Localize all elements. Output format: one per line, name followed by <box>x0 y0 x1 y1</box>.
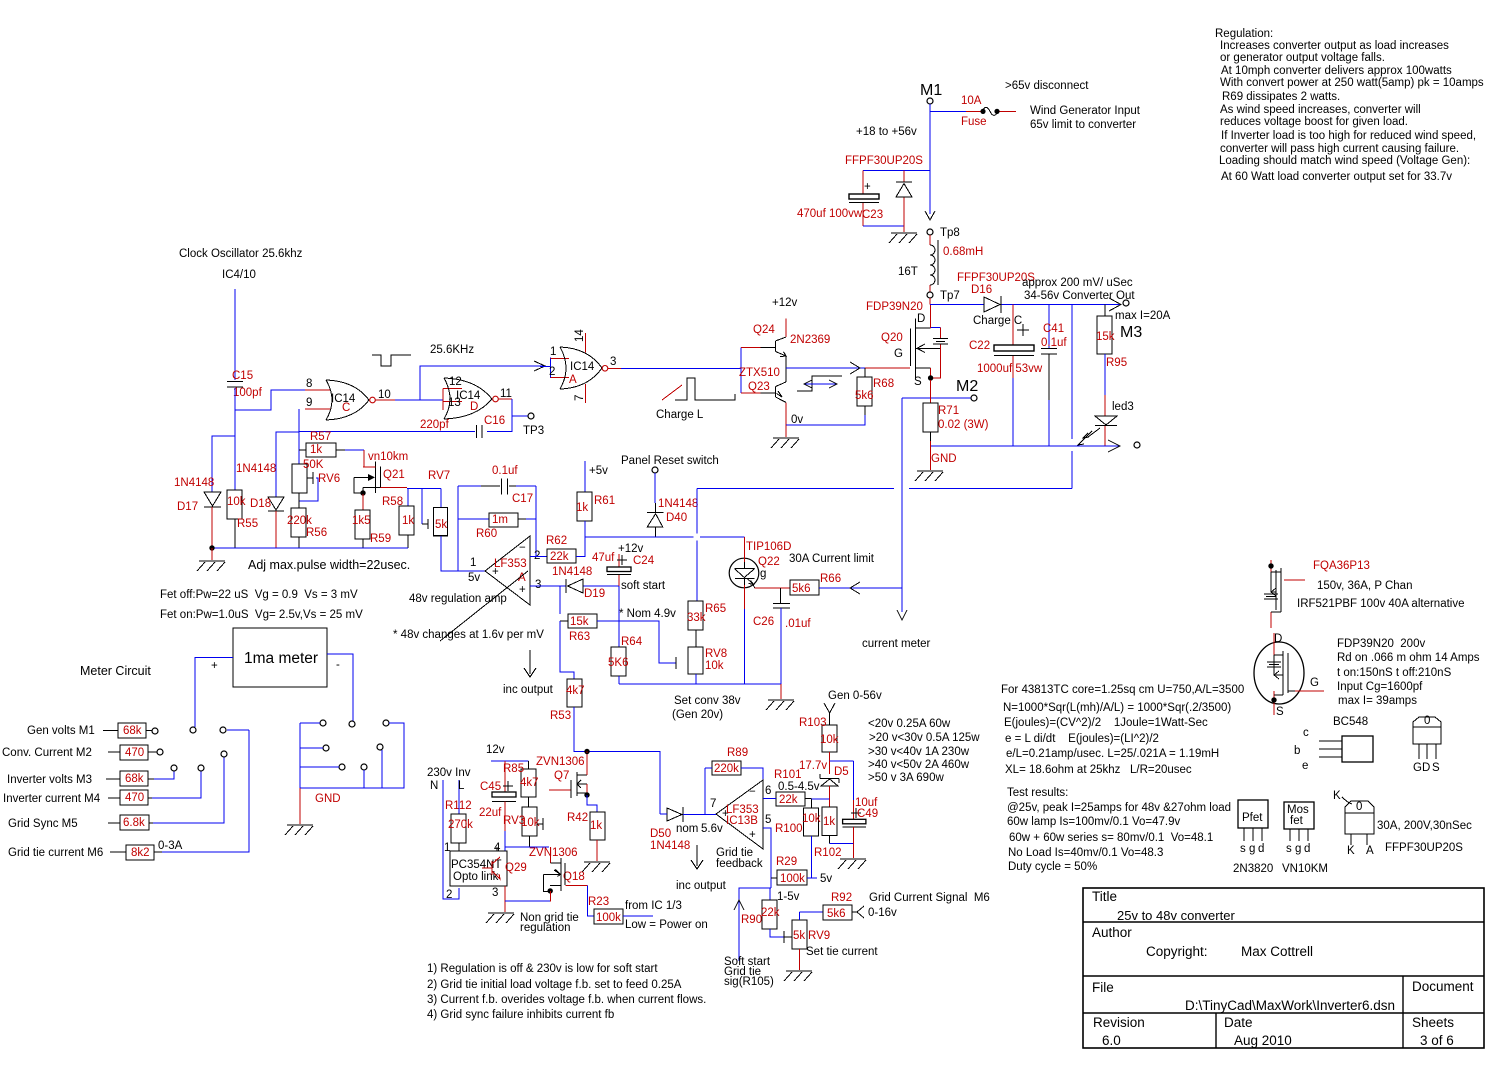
svg-text:d: d <box>1258 843 1264 855</box>
resistor R65 <box>687 601 726 647</box>
svg-text:R95: R95 <box>1106 357 1127 369</box>
svg-text:fet: fet <box>1290 815 1304 827</box>
svg-text:R42: R42 <box>567 812 588 824</box>
transistor Q22 TIP106D <box>729 537 791 684</box>
svg-text:R69 dissipates 2 watts.: R69 dissipates 2 watts. <box>1222 91 1340 103</box>
svg-text:0.02 (3W): 0.02 (3W) <box>938 419 989 431</box>
svg-text:* Nom 4.9v: * Nom 4.9v <box>619 608 676 620</box>
fuse 10A <box>930 95 1016 128</box>
svg-text:G: G <box>1310 677 1319 689</box>
switch selector right block <box>300 720 404 788</box>
svg-text:R23: R23 <box>588 896 609 908</box>
svg-text:R101: R101 <box>774 769 802 781</box>
resistor R103 <box>799 717 839 761</box>
resistor 6.8k M5 <box>8 751 227 830</box>
svg-text:Low = Power on: Low = Power on <box>625 919 708 931</box>
svg-text:3: 3 <box>492 887 498 899</box>
svg-text:5k: 5k <box>793 930 805 942</box>
note regulation text block <box>1215 28 1484 183</box>
svg-text:6.0: 6.0 <box>1102 1033 1121 1048</box>
svg-text:regulation: regulation <box>520 922 571 934</box>
svg-text:60w + 60w series s= 80mv/0.1: 60w + 60w series s= 80mv/0.1 Vo=48.1 <box>1009 832 1213 844</box>
transistor Q21 vn10km <box>354 462 407 511</box>
svg-text:10k: 10k <box>802 813 821 825</box>
svg-text:e/L=0.21amp/usec. L=25/.021A =: e/L=0.21amp/usec. L=25/.021A = 1.19mH <box>1006 748 1219 760</box>
svg-text:from IC 1/3: from IC 1/3 <box>625 900 682 912</box>
svg-text:R65: R65 <box>705 603 726 615</box>
svg-text:5k6: 5k6 <box>827 908 846 920</box>
node M1 terminal <box>920 82 942 104</box>
svg-text:FQA36P13: FQA36P13 <box>1313 560 1370 572</box>
package Mosfet VN10KM <box>1282 802 1328 875</box>
svg-text:Panel Reset switch: Panel Reset switch <box>621 455 719 467</box>
resistor R60 1m <box>458 513 536 540</box>
resistor R68 <box>855 368 894 415</box>
svg-text:11: 11 <box>500 388 512 400</box>
svg-text:R100: R100 <box>775 823 803 835</box>
note core formulas block <box>1001 684 1244 776</box>
capacitor C15 <box>227 370 263 399</box>
resistor R42 <box>567 795 610 872</box>
svg-text:−: − <box>519 542 526 554</box>
potentiometer RV3 <box>503 807 543 847</box>
svg-text:G: G <box>894 348 903 360</box>
potentiometer RV6 50K <box>292 459 340 501</box>
svg-text:100pf: 100pf <box>233 387 263 399</box>
wire RV7 bottom to op-amp input <box>441 536 485 571</box>
svg-text:C16: C16 <box>484 415 505 427</box>
node TP3 <box>523 413 544 437</box>
svg-text:Q24: Q24 <box>753 324 775 336</box>
wire emitter junction to gate drive <box>786 362 910 374</box>
svg-text:feedback: feedback <box>716 858 763 870</box>
package FFPF30UP20S <box>1333 790 1472 857</box>
svg-text:b: b <box>1294 745 1300 757</box>
capacitor C22 1000uf <box>969 305 1043 447</box>
svg-text:34-56v Converter Out: 34-56v Converter Out <box>1024 290 1135 302</box>
svg-text:9: 9 <box>306 397 312 409</box>
wire pin11 to C16/TP3 <box>299 399 528 432</box>
svg-text:Regulation:: Regulation: <box>1215 28 1273 40</box>
svg-text:Revision: Revision <box>1093 1015 1145 1030</box>
svg-text:D5: D5 <box>834 766 849 778</box>
junction bus ground <box>209 545 214 550</box>
svg-text:R103: R103 <box>799 717 827 729</box>
svg-text:FDP39N20: FDP39N20 <box>866 301 923 313</box>
diode D19 <box>552 566 666 600</box>
svg-text:Wind Generator Input: Wind Generator Input <box>1030 105 1141 117</box>
svg-text:1000uf 53vw: 1000uf 53vw <box>977 363 1043 375</box>
svg-text:RV7: RV7 <box>428 470 450 482</box>
svg-text:8: 8 <box>306 378 312 390</box>
resistor R64 <box>608 636 643 684</box>
svg-text:max I= 39amps: max I= 39amps <box>1338 695 1417 707</box>
svg-text:IRF521PBF 100v 40A alternative: IRF521PBF 100v 40A alternative <box>1297 598 1465 610</box>
svg-text:16T: 16T <box>898 266 918 278</box>
ground Q23 <box>771 425 799 448</box>
svg-text:c: c <box>1303 727 1309 739</box>
resistor R62 <box>546 535 585 563</box>
package Pfet 2N3820 <box>1233 800 1273 875</box>
resistor 470 M2 <box>2 745 163 760</box>
ground C23 <box>889 226 917 243</box>
svg-text:220k: 220k <box>714 763 739 775</box>
svg-text:1: 1 <box>550 346 556 358</box>
svg-text:50K: 50K <box>303 459 324 471</box>
resistor 8k2 M6 <box>8 727 249 860</box>
optocoupler PC354NT <box>444 842 527 901</box>
svg-text:Q22: Q22 <box>758 556 780 568</box>
capacitor C16 <box>420 415 505 438</box>
transistor BC548 package <box>1294 716 1373 772</box>
resistor R55 <box>227 490 258 548</box>
svg-text:6.8k: 6.8k <box>123 817 145 829</box>
svg-text:100k: 100k <box>596 912 621 924</box>
svg-text:3) Current f.b. overides volta: 3) Current f.b. overides voltage f.b. wh… <box>427 994 706 1006</box>
note wind generator input <box>856 80 1141 138</box>
svg-text:Title: Title <box>1092 889 1117 904</box>
svg-text:1N4148: 1N4148 <box>236 463 276 475</box>
svg-text:R64: R64 <box>621 636 643 648</box>
resistor R56 <box>287 493 327 548</box>
svg-text:t on:150nS t off:210nS: t on:150nS t off:210nS <box>1337 667 1452 679</box>
svg-text:+: + <box>749 829 756 841</box>
svg-text:Q21: Q21 <box>383 469 405 481</box>
svg-text:R59: R59 <box>370 533 391 545</box>
svg-text:K: K <box>1333 790 1341 802</box>
svg-text:XL= 18.6ohm at 25khz L/R=20u: XL= 18.6ohm at 25khz L/R=20usec <box>1005 764 1192 776</box>
svg-text:R112: R112 <box>445 800 472 812</box>
svg-text:LF353: LF353 <box>494 558 527 570</box>
svg-text:Conv. Current M2: Conv. Current M2 <box>2 747 92 759</box>
svg-text:s: s <box>1286 843 1292 855</box>
resistor R92 <box>800 892 990 920</box>
transistor Q24 2N2369 <box>741 297 830 368</box>
wire Q23 emitter to 0v and R68 bottom <box>786 414 865 426</box>
svg-text:22k: 22k <box>550 551 569 563</box>
svg-text:File: File <box>1092 980 1114 995</box>
svg-text:N: N <box>430 780 438 792</box>
wire C24 to R64 <box>618 586 620 647</box>
svg-text:M1: M1 <box>920 82 942 99</box>
resistor R102 <box>814 799 842 859</box>
svg-text:1: 1 <box>470 557 476 569</box>
svg-text:5k: 5k <box>435 519 447 531</box>
wire zener node <box>799 760 853 800</box>
svg-text:Grid Sync M5: Grid Sync M5 <box>8 818 78 830</box>
svg-text:270k: 270k <box>448 819 473 831</box>
svg-text:R68: R68 <box>873 378 894 390</box>
svg-text:Q23: Q23 <box>748 381 770 393</box>
svg-text:7: 7 <box>710 798 716 810</box>
svg-text:g: g <box>1295 843 1301 855</box>
wire C15 to pin8 and to D17/R55 <box>212 388 305 492</box>
svg-text:R57: R57 <box>310 431 331 443</box>
wire pin9 net vertical <box>276 409 299 548</box>
svg-text:ZVN1306: ZVN1306 <box>536 756 585 768</box>
note numbered notes block <box>427 963 706 1021</box>
svg-text:220pf: 220pf <box>420 419 450 431</box>
svg-text:BC548: BC548 <box>1333 716 1368 728</box>
svg-text:10k: 10k <box>705 660 724 672</box>
wire IC14A output to ZTX bases <box>608 348 741 394</box>
svg-text:* 48v changes at 1.6v per mV: * 48v changes at 1.6v per mV <box>393 629 544 641</box>
svg-text:5.6v: 5.6v <box>701 823 723 835</box>
led led3 <box>1078 395 1134 446</box>
svg-text:D: D <box>1274 633 1282 645</box>
svg-text:vn10km: vn10km <box>368 451 408 463</box>
package TO-220 GDS <box>1413 715 1441 774</box>
svg-text:1k: 1k <box>402 515 414 527</box>
svg-text:R71: R71 <box>938 405 959 417</box>
svg-text:30A, 200V,30nSec: 30A, 200V,30nSec <box>1377 820 1472 832</box>
svg-text:5: 5 <box>765 814 771 826</box>
svg-text:15k: 15k <box>1096 331 1115 343</box>
svg-text:68k: 68k <box>125 773 144 785</box>
svg-text:(Gen 20v): (Gen 20v) <box>672 709 723 721</box>
node Gen 0-56v input <box>824 690 882 725</box>
svg-text:S: S <box>914 376 922 388</box>
op-amp LF353 IC13B <box>710 780 771 849</box>
svg-text:R85: R85 <box>503 763 524 775</box>
svg-text:VN10KM: VN10KM <box>1282 863 1328 875</box>
capacitor C45 22uf <box>479 781 516 847</box>
svg-text:Adj max.pulse width=22usec.: Adj max.pulse width=22usec. <box>248 558 410 572</box>
wire pin3 to D19 <box>530 586 619 614</box>
svg-text:1k: 1k <box>823 816 835 828</box>
note test results block <box>1007 787 1231 873</box>
wire opto pin3 to ground <box>486 886 579 934</box>
svg-text:IC13B: IC13B <box>726 815 758 827</box>
svg-text:R53: R53 <box>550 710 571 722</box>
capacitor C49 10uf <box>843 797 879 844</box>
svg-text:30A Current limit: 30A Current limit <box>789 553 875 565</box>
svg-text:Increases converter output as: Increases converter output as load incre… <box>1220 40 1449 52</box>
svg-text:Q18: Q18 <box>563 871 585 883</box>
svg-text:2N2369: 2N2369 <box>790 334 830 346</box>
svg-text:Sheets: Sheets <box>1412 1015 1454 1030</box>
svg-text:Copyright:: Copyright: <box>1146 944 1208 959</box>
svg-text:C41: C41 <box>1043 323 1064 335</box>
wire main converter out <box>930 298 1129 311</box>
svg-text:IC4/10: IC4/10 <box>222 269 256 281</box>
wire panel reset net <box>585 305 1072 602</box>
svg-text:Duty cycle = 50%: Duty cycle = 50% <box>1008 861 1097 873</box>
svg-text:60w lamp Is=100mv/0.1 Vo=47.9v: 60w lamp Is=100mv/0.1 Vo=47.9v <box>1007 816 1180 828</box>
svg-text:+5v: +5v <box>589 465 608 477</box>
nor gate IC14D <box>443 376 512 419</box>
svg-text:0.5-4.5v: 0.5-4.5v <box>778 781 820 793</box>
svg-text:TIP106D: TIP106D <box>746 541 791 553</box>
svg-text:RV6: RV6 <box>318 473 340 485</box>
wire regulator bottom bus <box>619 683 781 685</box>
node IC4/10 clock input label <box>179 248 303 281</box>
potentiometer RV9 <box>784 912 878 981</box>
svg-text:M2: M2 <box>956 378 978 395</box>
svg-text:At 60 Watt load converter outp: At 60 Watt load converter output set for… <box>1221 171 1452 183</box>
wire 12v rail opto <box>486 744 529 792</box>
svg-text:Fet on:Pw=1.0uS Vg= 2.5v,Vs =: Fet on:Pw=1.0uS Vg= 2.5v,Vs = 25 mV <box>160 609 363 621</box>
svg-text:R90: R90 <box>741 914 762 926</box>
svg-text:17.7v: 17.7v <box>799 760 827 772</box>
svg-text:10k: 10k <box>521 817 540 829</box>
svg-text:g: g <box>1249 843 1255 855</box>
svg-text:1) Regulation is off & 230v is: 1) Regulation is off & 230v is low for s… <box>427 963 658 975</box>
svg-text:Tp8: Tp8 <box>940 227 960 239</box>
note grid tie feedback <box>676 845 763 892</box>
svg-text:A: A <box>569 374 577 386</box>
svg-text:E(joules)=(CV^2)/2 1Joule=1: E(joules)=(CV^2)/2 1Joule=1Watt-Sec <box>1004 717 1208 729</box>
svg-text:Loading should match wind spee: Loading should match wind speed (Voltage… <box>1219 155 1470 167</box>
svg-text:68k: 68k <box>123 725 142 737</box>
svg-text:0.1uf: 0.1uf <box>1041 337 1067 349</box>
wire Q21 drain node to R58/RV7 <box>407 489 441 524</box>
svg-text:4k7: 4k7 <box>520 777 539 789</box>
svg-text:100k: 100k <box>780 873 805 885</box>
note soft start sig arrow <box>724 900 774 988</box>
waveform pulse symbol <box>372 355 411 366</box>
svg-text:Charge L: Charge L <box>656 409 704 421</box>
svg-text:sig(R105): sig(R105) <box>724 976 774 988</box>
svg-text:converter will pass high curre: converter will pass high current causing… <box>1220 143 1459 155</box>
svg-text:R56: R56 <box>306 527 327 539</box>
svg-text:12: 12 <box>449 376 462 388</box>
svg-text:Charge C: Charge C <box>973 315 1022 327</box>
svg-text:R61: R61 <box>594 495 615 507</box>
svg-text:8k2: 8k2 <box>131 847 150 859</box>
svg-text:4k7: 4k7 <box>566 685 585 697</box>
resistor R59 <box>352 510 391 548</box>
ground clock bus <box>197 548 225 571</box>
resistor R85 <box>503 761 539 807</box>
svg-text:IC14: IC14 <box>570 361 595 373</box>
svg-text:220k: 220k <box>287 515 312 527</box>
svg-text:R29: R29 <box>776 856 797 868</box>
capacitor C26 <box>753 588 811 684</box>
svg-text:R92: R92 <box>831 892 852 904</box>
wire Q22 emitter to R66 <box>755 587 790 589</box>
svg-text:1ma meter: 1ma meter <box>244 650 318 667</box>
transistor FQA36P13 symbol <box>1264 560 1465 628</box>
svg-text:R55: R55 <box>237 518 258 530</box>
svg-text:470: 470 <box>125 792 144 804</box>
transistor Q20 FDP39N20 <box>866 301 948 388</box>
svg-text:R66: R66 <box>820 573 841 585</box>
svg-text:<20v 0.25A 60w: <20v 0.25A 60w <box>868 718 951 730</box>
svg-text:1N4148: 1N4148 <box>658 498 698 510</box>
note set conv <box>672 695 741 721</box>
svg-text:5K6: 5K6 <box>608 657 628 669</box>
note charge L pulse <box>656 378 735 421</box>
diode C23 clamp FFPF <box>896 170 912 226</box>
capacitor C41 0.1uf <box>1041 305 1067 447</box>
svg-text:Date: Date <box>1224 1015 1253 1030</box>
resistor R29 <box>771 856 832 885</box>
wire pin5 net <box>763 828 771 888</box>
meter 1ma box <box>211 628 340 687</box>
svg-text:D18: D18 <box>250 498 271 510</box>
svg-text:No Load Is=40mv/0.1 Vo=48.3: No Load Is=40mv/0.1 Vo=48.3 <box>1008 847 1163 859</box>
svg-text:C: C <box>342 402 350 414</box>
resistor R100 <box>775 808 821 878</box>
nor gate IC14A <box>540 329 616 404</box>
svg-text:10A: 10A <box>961 95 982 107</box>
svg-text:+18 to +56v: +18 to +56v <box>856 126 917 138</box>
svg-text:Q20: Q20 <box>881 332 903 344</box>
svg-text:1-5v: 1-5v <box>777 891 800 903</box>
svg-text:65v limit to converter: 65v limit to converter <box>1030 119 1136 131</box>
svg-text:>40 v<50v 2A 460w: >40 v<50v 2A 460w <box>868 759 970 771</box>
svg-text:1k5: 1k5 <box>352 515 371 527</box>
svg-text:D19: D19 <box>584 588 605 600</box>
svg-text:e = L di/dt E(joules)=(LI^2: e = L di/dt E(joules)=(LI^2)/2 <box>1005 733 1159 745</box>
wire meter minus lead <box>327 654 353 721</box>
svg-text:Fuse: Fuse <box>961 116 987 128</box>
svg-text:R62: R62 <box>546 535 567 547</box>
svg-text:0-3A: 0-3A <box>158 840 183 852</box>
ground regulator bus <box>766 684 794 710</box>
resistor R53 <box>550 679 660 814</box>
resistor R66 <box>790 573 902 595</box>
svg-text:R63: R63 <box>569 631 590 643</box>
svg-text:s: s <box>1240 843 1246 855</box>
svg-text:At 10mph converter delivers ap: At 10mph converter delivers approx 100wa… <box>1221 65 1452 77</box>
svg-text:470: 470 <box>125 747 144 759</box>
note 230v inv <box>427 767 471 792</box>
svg-text:PC354NT: PC354NT <box>451 859 502 871</box>
svg-text:Author: Author <box>1092 925 1132 940</box>
svg-text:D17: D17 <box>177 501 198 513</box>
wire gate C output to gate D and up to 25.6KHz run <box>376 344 547 400</box>
svg-text:Tp7: Tp7 <box>940 290 960 302</box>
svg-text:Set tie current: Set tie current <box>806 946 878 958</box>
svg-text:current meter: current meter <box>862 638 931 650</box>
svg-text:22k: 22k <box>761 907 780 919</box>
wire R57 to Q21 gate <box>345 450 408 467</box>
node meter plus contact <box>190 727 196 733</box>
svg-text:6: 6 <box>765 785 771 797</box>
svg-text:10: 10 <box>378 389 391 401</box>
svg-text:Grid Current Signal M6: Grid Current Signal M6 <box>869 892 990 904</box>
diode D18 <box>236 463 284 548</box>
resistor R95 <box>1096 305 1127 396</box>
svg-text:Grid tie current M6: Grid tie current M6 <box>8 847 103 859</box>
svg-text:C23: C23 <box>862 209 883 221</box>
svg-text:D50: D50 <box>650 828 671 840</box>
svg-text:C24: C24 <box>633 555 655 567</box>
svg-text:RV9: RV9 <box>808 930 830 942</box>
svg-text:1N4148: 1N4148 <box>650 840 690 852</box>
wire Q18 source bus <box>505 900 550 902</box>
svg-text:FFPF30UP20S: FFPF30UP20S <box>1385 842 1463 854</box>
diode D5 zener <box>820 766 849 799</box>
svg-text:C45: C45 <box>480 781 501 793</box>
wire meter plus lead <box>195 658 233 728</box>
svg-text:With convert power at 250 watt: With convert power at 250 watt(5amp) pk … <box>1220 77 1484 89</box>
wire R53 branch <box>560 621 574 679</box>
resistor R89 <box>705 747 763 814</box>
svg-text:+: + <box>864 181 871 193</box>
svg-text:GND: GND <box>931 453 957 465</box>
wire pin6 net <box>763 798 776 800</box>
wire Q18 drain to R23 <box>566 885 594 916</box>
svg-text:approx 200 mV/ uSec: approx 200 mV/ uSec <box>1022 277 1133 289</box>
node Tp8 <box>927 227 960 239</box>
diode D40 <box>647 498 698 537</box>
svg-text:GND: GND <box>315 793 341 805</box>
svg-text:R89: R89 <box>727 747 748 759</box>
svg-text:C22: C22 <box>969 340 990 352</box>
